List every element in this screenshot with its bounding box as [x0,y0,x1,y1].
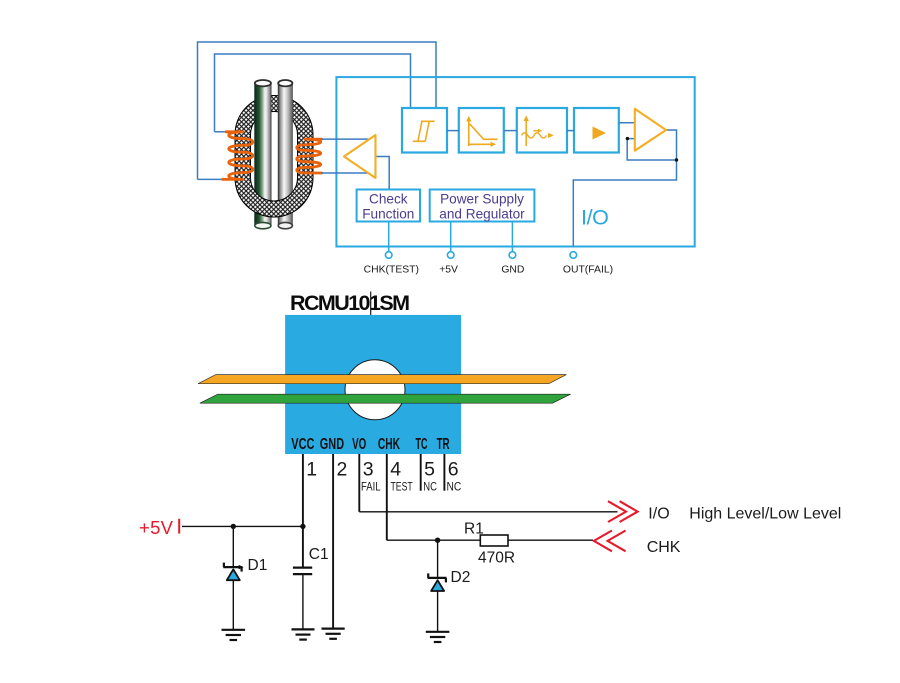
svg-text:FAIL: FAIL [361,480,381,494]
svg-text:NC: NC [423,480,437,494]
svg-text:R1: R1 [464,521,484,538]
svg-text:GND: GND [501,265,524,276]
svg-text:C1: C1 [309,546,329,563]
svg-text:+5V: +5V [139,517,174,538]
svg-text:I/O: I/O [581,206,608,230]
svg-text:VCC: VCC [291,436,314,453]
svg-text:TC: TC [416,436,428,453]
svg-text:470R: 470R [478,550,515,567]
svg-text:TR: TR [437,436,450,453]
svg-text:TEST: TEST [391,480,414,494]
svg-text:2: 2 [337,459,348,481]
svg-text:Check: Check [369,192,408,207]
svg-text:D2: D2 [451,569,471,586]
svg-text:Function: Function [362,207,414,222]
svg-text:and Regulator: and Regulator [439,207,525,222]
svg-text:1: 1 [306,459,317,481]
svg-text:+5V: +5V [439,265,458,276]
svg-text:6: 6 [448,459,459,481]
svg-text:RCMU101SM: RCMU101SM [290,291,410,315]
svg-text:High Level/Low Level: High Level/Low Level [689,505,841,522]
svg-text:I/O: I/O [648,505,669,522]
svg-text:GND: GND [320,436,344,453]
svg-text:NC: NC [447,480,462,494]
svg-text:VO: VO [352,436,366,453]
svg-text:CHK: CHK [378,436,401,453]
svg-text:D1: D1 [248,557,268,574]
svg-text:Power Supply: Power Supply [440,192,524,207]
svg-text:OUT(FAIL): OUT(FAIL) [563,265,613,276]
svg-text:CHK: CHK [647,539,681,556]
svg-text:4: 4 [390,459,401,481]
svg-text:CHK(TEST): CHK(TEST) [364,265,419,276]
svg-text:3: 3 [363,459,374,481]
svg-text:5: 5 [424,459,435,481]
